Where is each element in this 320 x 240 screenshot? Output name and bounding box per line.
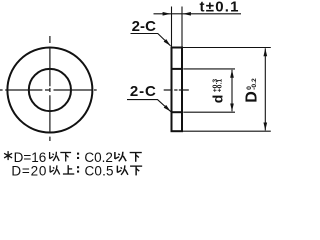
dimension line t left segment (154, 13, 171, 15)
fullwidth colon (77, 153, 79, 155)
section body (side view rectangle) (171, 47, 184, 133)
leader 2-C lower (127, 100, 171, 112)
svg-text:C0.5: C0.5 (85, 163, 114, 178)
note line 1: *D=16以下:C0.2以下 (4, 150, 142, 165)
svg-text:d: d (209, 95, 225, 104)
label D 0/-0.2 (243, 78, 260, 103)
svg-text:2-C: 2-C (132, 18, 157, 35)
leader 2-C upper (131, 34, 171, 46)
svg-text:t±0.1: t±0.1 (200, 0, 239, 16)
dimension line d (231, 70, 233, 91)
horizontal centerline (0, 89, 97, 91)
inner circle (washer bore, front view) (29, 69, 71, 111)
dimension line t right segment (183, 13, 241, 15)
fullwidth colon (77, 166, 79, 168)
bore line lower (section) (171, 111, 184, 113)
svg-text:D: D (243, 91, 260, 103)
dimension line t middle segment (171, 13, 183, 15)
bore line upper (section) (171, 68, 184, 70)
outer circle (washer OD, front view) (7, 48, 92, 133)
extension line t left (171, 7, 173, 47)
vertical centerline (49, 36, 51, 141)
dimension line D (264, 48, 266, 90)
extension line D lower (183, 130, 271, 132)
extension line t right (181, 7, 183, 47)
svg-text:-0.2: -0.2 (251, 78, 258, 90)
svg-text:+0.1: +0.1 (217, 79, 224, 93)
asterisk (4, 151, 12, 160)
label d +0.3/+0.1 (209, 79, 225, 104)
extension line d lower (183, 111, 235, 113)
svg-text:2-C: 2-C (130, 83, 156, 100)
extension line D upper (183, 47, 271, 49)
extension line d upper (183, 68, 235, 70)
note line 2: D=20以上:C0.5以下 (11, 163, 142, 178)
section centerline (164, 89, 189, 91)
svg-text:D=20: D=20 (11, 163, 46, 178)
